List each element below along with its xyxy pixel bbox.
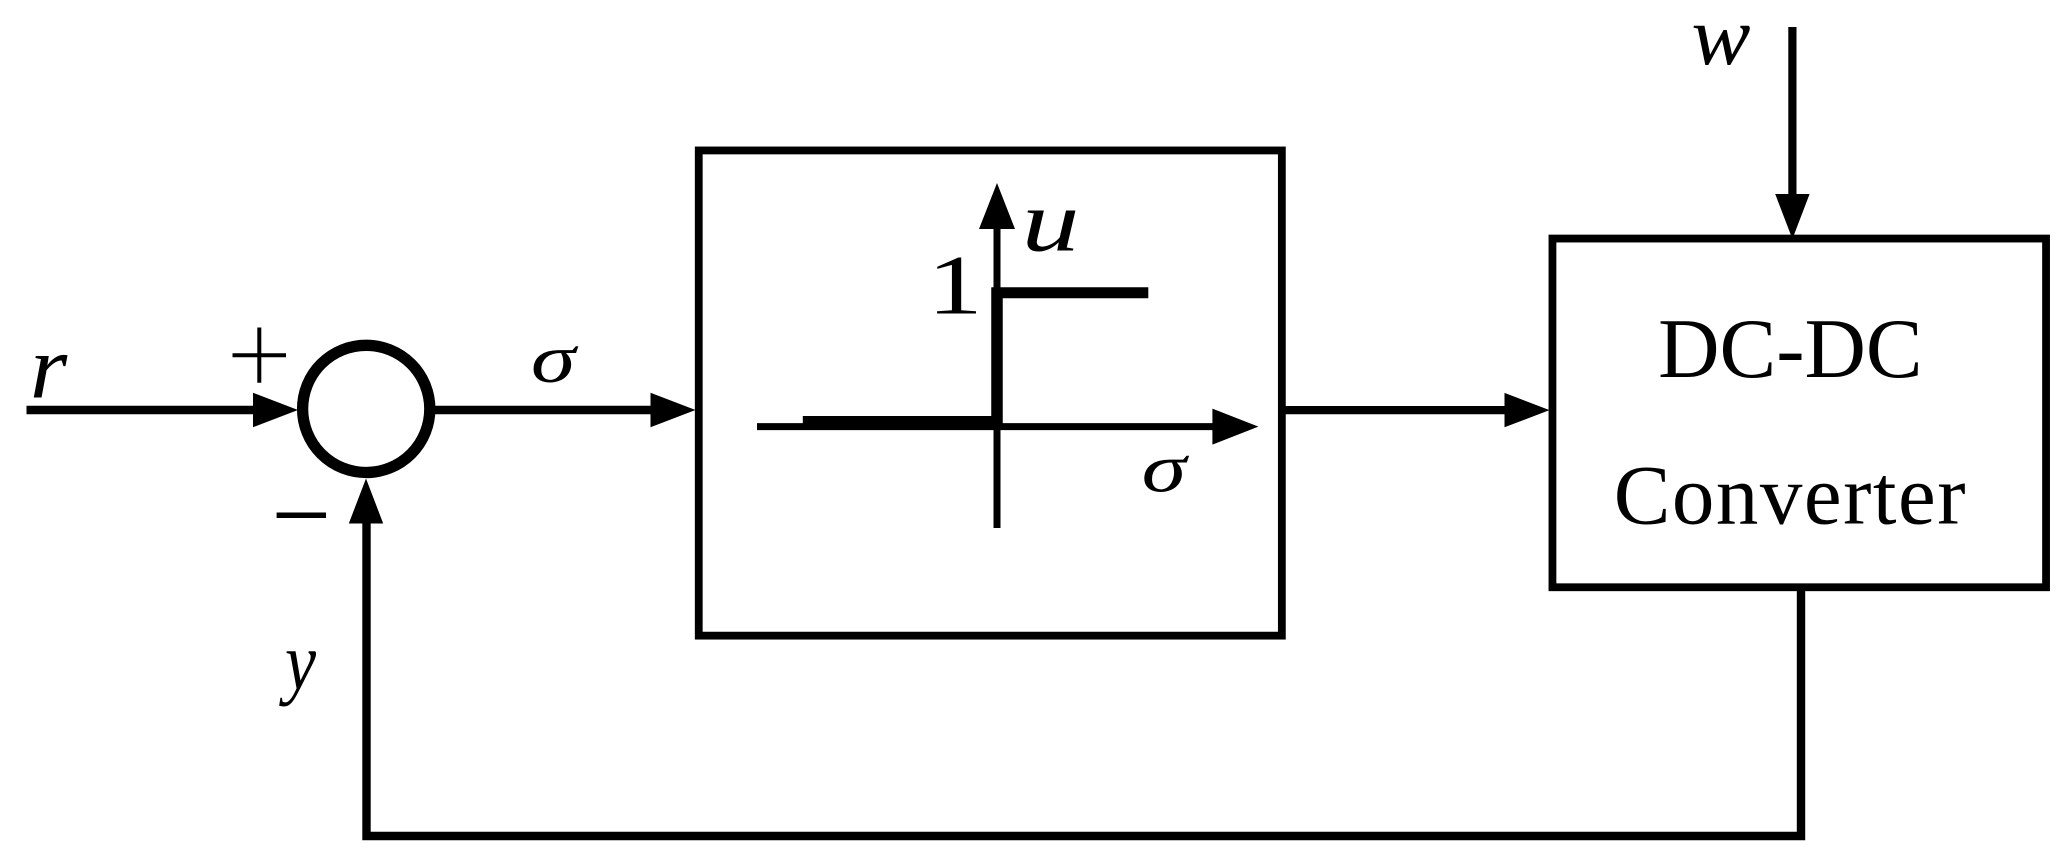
wire sigma to relay block bbox=[433, 406, 655, 415]
label 1 (relay level) bbox=[927, 238, 982, 332]
wire w into converter bbox=[1788, 27, 1796, 196]
label y (output feedback) bbox=[279, 617, 317, 707]
label u axis bbox=[1022, 174, 1080, 270]
summing junction circle bbox=[303, 345, 430, 472]
svg-text:r: r bbox=[30, 318, 68, 418]
label sigma axis bbox=[1142, 432, 1190, 507]
arrowhead into relay block bbox=[651, 393, 696, 427]
arrowhead w into converter bbox=[1775, 194, 1809, 239]
svg-text:u: u bbox=[1022, 174, 1080, 270]
wire relay to converter bbox=[1285, 406, 1508, 414]
plus sign bbox=[233, 328, 287, 383]
arrowhead feedback into summing junction bbox=[349, 479, 383, 524]
relay graph horizontal axis bbox=[757, 423, 1216, 430]
arrowhead sigma axis bbox=[1212, 409, 1258, 445]
svg-text:1: 1 bbox=[927, 238, 982, 332]
arrowhead u axis bbox=[979, 183, 1015, 229]
arrowhead into summing junction bbox=[253, 393, 298, 427]
label w (disturbance) bbox=[1691, 0, 1750, 83]
svg-text:Converter: Converter bbox=[1614, 449, 1967, 543]
svg-text:y: y bbox=[279, 617, 317, 707]
svg-text:σ: σ bbox=[1142, 432, 1190, 507]
DC-DC converter box bbox=[1552, 239, 2046, 588]
relay output right segment (u=1) bbox=[992, 287, 1149, 298]
arrowhead into converter bbox=[1505, 393, 1550, 427]
svg-text:DC-DC: DC-DC bbox=[1658, 302, 1922, 396]
relay block box bbox=[699, 150, 1282, 635]
wire r input bbox=[27, 406, 261, 415]
relay step vertical bbox=[991, 288, 1003, 429]
svg-text:σ: σ bbox=[531, 322, 579, 397]
relay graph vertical axis bbox=[994, 228, 1001, 528]
label sigma on wire bbox=[531, 322, 579, 397]
label r (reference input) bbox=[30, 318, 68, 418]
minus sign bbox=[277, 512, 326, 518]
svg-text:w: w bbox=[1691, 0, 1750, 83]
wire converter output and feedback path bbox=[367, 521, 1802, 836]
relay output left segment bbox=[803, 416, 1000, 427]
